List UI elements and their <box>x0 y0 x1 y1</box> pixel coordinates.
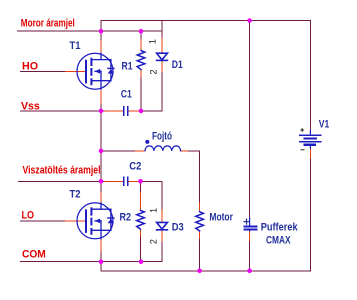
svg-text:R1: R1 <box>122 61 133 73</box>
wire T1 drain stub <box>100 41 102 53</box>
wire LO label line <box>21 220 66 222</box>
wire R1 top lead <box>140 31 142 40</box>
wire Viszatoltes label line <box>19 180 102 182</box>
svg-text:Fojtó: Fojtó <box>152 131 172 143</box>
diode D3 <box>157 222 168 229</box>
junction node T1 drain / Moror line <box>99 29 104 34</box>
wire rail Vss to inductor node <box>100 111 102 151</box>
inductor Fojto <box>145 146 181 151</box>
diode D1 <box>157 53 168 60</box>
capacitor Pufferek CMAX <box>244 218 257 231</box>
wire R2 top lead <box>140 181 142 193</box>
wire T2 drain stub <box>100 193 102 203</box>
svg-text:R2: R2 <box>120 211 132 223</box>
junction node C2 line / rail <box>99 179 104 184</box>
wire T1 gate stub <box>65 70 86 72</box>
wire rail T2 to COM <box>100 252 102 262</box>
junction node bottom rail / Pufferek <box>247 269 252 274</box>
junction node R1 top <box>139 29 144 34</box>
wire D1 bottom lead <box>161 60 163 72</box>
wire T1 source stub <box>100 89 102 104</box>
svg-text:HO: HO <box>22 60 38 72</box>
wire motor to bottom rail <box>199 240 201 271</box>
junction node bottom rail / Motor <box>197 269 202 274</box>
svg-text:COM: COM <box>22 248 46 260</box>
wire Moror aramjel label line <box>18 30 142 32</box>
capacitor C1 <box>124 107 128 115</box>
capacitor C2 <box>124 177 128 185</box>
inductor phase dot <box>145 140 149 144</box>
wire inductor right stub <box>181 150 189 152</box>
svg-text:T2: T2 <box>70 189 81 201</box>
wire rail COM to bottom <box>100 262 102 271</box>
wire Pufferek to bottom rail <box>249 242 251 271</box>
wire inductor left stub <box>135 150 145 152</box>
junction node Vss / rail <box>99 109 104 114</box>
svg-text:CMAX: CMAX <box>266 234 291 246</box>
junction node C1 / R1 bottom <box>139 109 144 114</box>
wire T2 gate stub <box>65 220 86 222</box>
wire Vss label line <box>21 110 106 112</box>
wire rail T1 to Vss <box>100 104 102 111</box>
wire Pufferek top lead <box>249 21 251 219</box>
transistor T1 <box>77 53 114 89</box>
resistor Motor <box>196 212 204 231</box>
wire left rail riser <box>100 21 102 42</box>
svg-text:Pufferek: Pufferek <box>261 222 299 234</box>
wire motor bottom stub <box>199 231 201 240</box>
svg-text:2: 2 <box>149 69 159 74</box>
wire C1 left stub <box>105 110 123 112</box>
svg-text:Viszatöltés áramjel: Viszatöltés áramjel <box>23 164 101 176</box>
svg-text:2: 2 <box>149 239 159 244</box>
svg-text:1: 1 <box>149 208 159 213</box>
wire D3 top lead <box>161 181 163 210</box>
wire bottom rail <box>101 270 310 272</box>
junction node inductor feed / rail <box>99 149 104 154</box>
wire right rail lower <box>309 158 311 271</box>
wire D3 bottom lead <box>161 231 163 242</box>
transistor T2 <box>77 203 114 239</box>
wire top rail <box>101 20 310 22</box>
wire rail C2 node down <box>100 181 102 193</box>
junction node C2 / R2 top <box>138 179 143 184</box>
svg-text:Vss: Vss <box>21 100 40 112</box>
svg-text:C2: C2 <box>129 161 141 173</box>
svg-text:V1: V1 <box>319 119 330 131</box>
wire motor top stub <box>199 203 201 212</box>
svg-text:T1: T1 <box>70 40 81 52</box>
resistor R2 <box>137 210 145 229</box>
junction node COM / rail <box>99 259 104 264</box>
svg-text:Motor: Motor <box>209 212 233 224</box>
wire R1 bottom lead <box>140 70 142 78</box>
svg-text:1: 1 <box>148 39 158 44</box>
junction node top rail / Pufferek <box>247 18 252 23</box>
wire COM label line <box>21 261 163 263</box>
junction node R2 bottom / COM <box>139 259 144 264</box>
resistor R1 <box>137 51 145 70</box>
wire C2 feed <box>101 180 105 182</box>
svg-text:LO: LO <box>22 210 35 222</box>
svg-text:D3: D3 <box>172 221 184 233</box>
wire inductor feed <box>101 150 135 152</box>
wire inductor to motor corner <box>189 151 200 203</box>
wire C2 node to D3 column <box>141 180 163 182</box>
battery V1 <box>300 129 321 150</box>
wire rail inductor node to C2 node <box>100 151 102 181</box>
wire T2 source stub <box>100 239 102 252</box>
wire battery red stub <box>309 148 311 158</box>
wire right rail upper <box>309 21 311 131</box>
wire C1 node to D1 column <box>141 110 162 112</box>
svg-text:D1: D1 <box>172 59 183 71</box>
wire C1 right stub <box>128 110 141 112</box>
wire Moror line to D1 column <box>141 30 162 32</box>
svg-text:C1: C1 <box>121 88 132 100</box>
wire HO label line <box>21 70 66 72</box>
wire D1 top lead <box>161 21 163 39</box>
wire Pufferek bottom red stub <box>249 231 251 242</box>
wire C2 left stub <box>105 180 123 182</box>
wire R2 bottom lead <box>140 229 142 237</box>
svg-text:Moror áramjel: Moror áramjel <box>21 17 75 29</box>
wire C2 right stub <box>128 180 140 182</box>
